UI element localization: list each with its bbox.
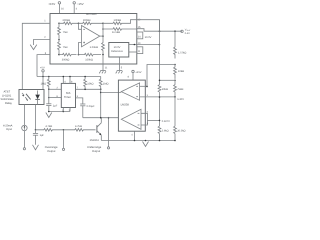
node 0.327V [159,120,161,122]
wire rail to opto [42,77,44,90]
svg-text:4.7kΩ: 4.7kΩ [75,125,82,128]
wire down to cap [48,89,50,104]
IC U1 RCV420 box [50,13,137,64]
ground under RC cap [33,145,39,150]
svg-text:300kΩ: 300kΩ [62,19,70,22]
terminal +15V (LM358) [128,70,142,80]
resistor 75ohm upper [58,23,68,39]
supply +15V terminal [48,2,64,14]
node ref output [134,44,136,46]
node 555 trigger [48,89,50,91]
optocoupler AT&T LH1191 [1,90,45,106]
wire ref to pin 10 [129,44,137,46]
IC U2 LM358 box [118,80,145,131]
LM358 pin 4 ground wire [134,131,136,140]
svg-text:RCV420: RCV420 [86,13,97,16]
wire col B down [174,97,176,126]
wire underrange output from collector net [108,118,110,147]
transistor Q1 2N3904 [90,123,102,142]
svg-text:4.7kΩ: 4.7kΩ [45,125,52,128]
op-amp U2B [121,109,141,129]
svg-text:0.01μF: 0.01μF [87,105,96,108]
resistor 100k bottom [79,53,102,61]
wire comparator output jog [101,91,122,93]
node overrange [63,129,65,131]
svg-text:LM358: LM358 [121,104,130,107]
svg-text:+5V: +5V [40,67,45,70]
node mid [174,80,176,82]
supply -15V terminal [73,2,84,14]
svg-text:AT&T: AT&T [4,91,11,94]
svg-text:6.30V: 6.30V [177,98,184,101]
svg-text:555: 555 [66,92,71,95]
node 6.30V [174,96,176,98]
resistor 1.01k [90,23,105,54]
svg-text:75Ω: 75Ω [63,46,68,49]
svg-text:10.0V: 10.0V [145,36,152,39]
svg-text:Output: Output [47,150,55,153]
resistor 300k top-right [79,19,104,25]
wire ref to pin 11 box [129,51,137,53]
wire to 555 pin2 [49,88,62,90]
ground at pin 2 [30,45,37,50]
divider column B: wire from Vout down [174,31,176,47]
node pin1 junction [58,23,60,25]
svg-text:100kΩ: 100kΩ [114,19,122,22]
svg-text:5.6kΩ: 5.6kΩ [162,129,169,132]
wire pin1 to opto [22,23,50,89]
terminal overrange output [45,130,65,153]
svg-text:10kΩ: 10kΩ [87,83,93,86]
svg-text:4-20mA: 4-20mA [3,124,13,127]
pin 11 jumper box [137,47,143,54]
wire pin11 bottom to ground [102,64,104,71]
capacitor 0.01uF [80,104,95,118]
photodiode inside [35,95,40,100]
wire node to comparator A input [147,65,175,87]
LED inside [22,93,24,95]
wire collector [100,118,102,123]
svg-text:1μF: 1μF [40,134,45,137]
wire pin15 Vout [137,29,182,32]
svg-text:0-5V: 0-5V [185,32,190,35]
node +input bottom [78,54,80,56]
wire to noninverting input [79,43,82,55]
wire 555 pin7 row [76,88,101,90]
resistor 10k col B [174,65,185,79]
node ref bottom [102,54,104,56]
wire emitter to ground rail [100,135,102,140]
svg-text:−15V: −15V [77,2,84,6]
node threshold upper [174,64,176,66]
svg-text:11.5kΩ: 11.5kΩ [112,31,120,34]
wire pin3 to +5V rail [37,55,50,77]
resistor 75ohm lower [58,40,68,55]
resistor 1M (555 trigger pullup) [41,77,51,90]
resistor 75k col B [174,80,184,97]
wire ref network to pin 11 [102,55,104,64]
resistor 4.7k left [36,125,64,131]
svg-text:100kΩ: 100kΩ [85,58,93,61]
terminal +5V [40,67,45,77]
svg-text:1MΩ: 1MΩ [41,83,47,86]
svg-text:20.5kΩ: 20.5kΩ [177,129,185,132]
svg-text:1MΩ: 1MΩ [103,83,109,86]
resistor 10k col A [158,85,168,93]
wire 555 pin3 row [76,98,83,104]
wire pin5 to ground [119,64,121,71]
node pin2 junction [58,39,60,41]
resistor 20.5k col B [174,126,186,133]
U2B input wires [141,113,147,125]
svg-text:300kΩ: 300kΩ [83,19,91,22]
node opamp inverting input [78,23,80,25]
wire to inverting input [79,23,82,29]
svg-text:10.0V: 10.0V [114,46,121,49]
wire opto output to RC node [35,105,37,130]
+5V rail [37,76,101,78]
wire pin10 to divider column [137,44,160,46]
svg-text:300kΩ: 300kΩ [62,58,70,61]
ground symbol under 555 [46,113,52,118]
svg-text:Relay: Relay [5,102,13,105]
wire pin2 to ground [34,40,51,46]
svg-text:LH1191: LH1191 [2,94,12,97]
IC 555 timer box [61,83,75,107]
svg-text:Timer: Timer [64,96,71,99]
ground at pin 11 [99,71,106,74]
svg-text:Solid-State: Solid-State [1,98,15,101]
op-amp U2A [121,83,139,100]
svg-text:10kΩ: 10kΩ [162,88,168,91]
U2A input wires [140,85,147,87]
svg-text:Reference: Reference [111,50,124,53]
svg-text:Output: Output [92,150,100,153]
resistor 100k feedback row [103,19,137,25]
resistor 11.5k row [102,28,137,35]
svg-text:2N3904: 2N3904 [90,139,100,142]
op-amp A1 (RCV420 internal) [82,26,100,47]
Vout node and terminal [159,30,161,32]
wire cap bottom to collector node [83,117,119,119]
voltage reference box 10.0V [109,43,129,58]
svg-text:+15V: +15V [48,2,55,6]
resistor 1M pullup (collector) [99,77,108,90]
svg-text:1.57kΩ: 1.57kΩ [178,51,186,54]
resistor 10k pullup (555 pin7) [84,76,94,90]
bottom ground rail [101,140,175,142]
resistor 5.6k col A [158,126,169,133]
resistor 300k bottom [59,53,77,61]
svg-text:Underrange: Underrange [87,146,102,149]
capacitor 1uF (555) [46,104,58,112]
svg-text:Input: Input [6,128,12,131]
resistor 4.7k right [64,125,96,131]
svg-text:75kΩ: 75kΩ [177,88,183,91]
svg-text:1.01kΩ: 1.01kΩ [90,46,98,49]
svg-text:Overrange: Overrange [45,146,58,149]
svg-text:1μF: 1μF [53,105,58,108]
555 pin stubs [57,76,79,113]
ground at pin 5 [116,71,123,74]
resistor 1.57k [174,47,187,59]
wire between columns [160,79,176,81]
resistor 300k top-left [59,19,79,25]
wire to 555 pin6 [49,97,62,99]
ground rail under 555 [49,111,70,113]
wire ref bottom to pin 5 [119,57,121,64]
node pin3 junction [58,54,60,56]
divider column A [159,20,161,85]
svg-text:75Ω: 75Ω [63,31,68,34]
svg-text:10kΩ: 10kΩ [178,70,184,73]
pin 14 jumper box [137,32,143,39]
svg-text:0.327V: 0.327V [162,120,170,123]
svg-text:+15V: +15V [135,71,141,74]
ground symbol bottom rail [143,142,149,147]
node feedback [102,23,104,25]
wire pin12 to divider column [137,20,160,32]
capacitor 1uF (overrange RC) [33,130,45,145]
current source 4-20mA input [3,105,27,150]
wire pullup column to comparator output [100,88,102,118]
